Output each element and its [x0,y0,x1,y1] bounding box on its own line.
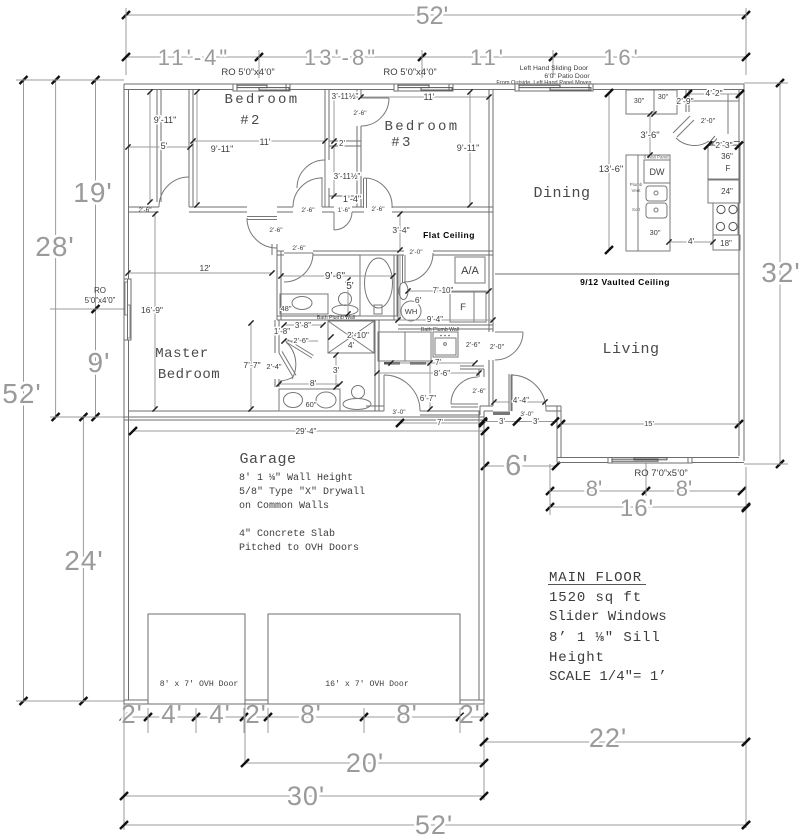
dim: 30 ft [120,781,488,811]
svg-text:11': 11' [470,45,506,70]
door: utility room [403,253,434,283]
svg-text:2’-4": 2’-4" [266,362,282,371]
fixture: kitchen sink [646,186,667,218]
wall: living bottom [557,458,744,463]
svg-text:Pitched to OVH Doors: Pitched to OVH Doors [239,542,359,554]
dim: 2-4 b [266,362,282,371]
svg-text:9’-11": 9’-11" [211,144,234,154]
svg-text:2’-10": 2’-10" [347,330,369,340]
svg-text:8' x 7' OVH Door: 8' x 7' OVH Door [160,679,239,689]
label 60in vanity [305,400,316,409]
dim: bedroom3 9-11 [457,89,480,207]
label 30 island b [658,94,669,101]
svg-text:6’0” Patio Door: 6’0” Patio Door [544,73,590,80]
dim: bedroom3 11ft [358,92,491,102]
svg-text:4’-2": 4’-2" [705,88,722,98]
dim: closet 2ft [339,139,345,148]
label 2-6 bath door [292,245,306,252]
door: entry coat closet [451,377,478,407]
svg-text:1’-4": 1’-4" [343,194,361,204]
svg-text:24': 24' [64,545,104,576]
door: hall bath [284,253,313,282]
door: garage entry [384,375,420,411]
svg-text:2’-6": 2’-6" [269,227,283,234]
label 2-0 pantry [701,118,716,125]
counter line upper cabinets [691,100,739,102]
svg-text:32': 32' [761,257,801,288]
label: MAIN FLOOR block [548,570,667,685]
svg-text:11'-4": 11'-4" [158,45,230,70]
label 2-6 master door [269,227,283,234]
svg-text:30": 30" [658,94,669,101]
label 2-6 bedroom3 door [371,206,385,213]
extension line utility dims [399,255,401,320]
svg-text:9’-6": 9’-6" [325,271,346,282]
label 2-6 closet1 door [353,110,367,117]
dim: utility 9-4 [395,315,495,324]
svg-text:11': 11' [423,92,434,102]
dim: closet1 3-11 [331,92,358,144]
svg-text:Living: Living [602,341,659,358]
wall: kitchen top-left jog [686,90,689,113]
svg-text:4': 4' [688,236,695,246]
wall: bedroom3 right / dining left [489,90,493,256]
counter edge right wall [727,94,729,134]
svg-text:9/12 Vaulted Ceiling: 9/12 Vaulted Ceiling [580,277,670,287]
fixture: hallbath vanity [280,294,328,314]
wall: right exterior [739,84,744,461]
svg-text:4" Concrete Slab: 4" Concrete Slab [239,528,335,540]
fixture: master vanity [279,389,340,411]
door: bedroom3 closet [361,98,389,126]
dim: closet 5ft [125,141,192,151]
label: Dining [533,185,590,202]
svg-text:Slider Windows: Slider Windows [549,609,667,625]
svg-text:Height: Height [549,650,605,666]
svg-text:8': 8' [586,476,602,501]
dim: closet 1-8 [274,327,290,336]
connector y309 left [50,308,124,310]
svg-text:8': 8' [676,476,692,501]
dim: overall depth 52 ft left [2,76,42,705]
label patio door notes [496,65,591,86]
svg-text:2’-6": 2’-6" [353,110,367,117]
svg-text:5/8" Type "X" Drywall: 5/8" Type "X" Drywall [239,486,365,498]
door: master bedroom [247,217,277,249]
door: bedroom2 [293,177,325,207]
dim: 19 ft / 9 ft left [73,76,113,421]
wall: closet column right / bedroom3 left [357,90,361,208]
garage door 8ft [148,614,245,704]
svg-text:Bath Plumb Wall: Bath Plumb Wall [421,327,459,333]
cabinet: 24in [708,180,740,203]
extension line bottom right of living [744,463,788,465]
dim: 28 ft left [35,76,75,421]
fixture: water heater WH [401,301,421,321]
label 1-6 linen door [338,208,350,214]
wall: master right [272,244,277,255]
window: bedroom2 [233,84,290,91]
svg-text:F: F [460,302,466,313]
wall: bedrooms bottom / hall top [128,207,493,212]
fixture: AA unit [455,257,485,283]
extension line x245 bottom [244,704,246,765]
label bath plumb wall 2 [421,327,459,333]
dim: bath 9-6 [278,271,395,282]
label: Garage [239,451,296,468]
svg-text:Soft: Soft [632,207,641,212]
window: bedroom3 [394,84,453,91]
svg-text:2’-6": 2’-6" [466,342,481,349]
dim: 8 ft + 8 ft window [546,476,746,501]
dim: bath 5ft [345,277,353,316]
dim: garage 29-4 [129,427,489,436]
label 30 sink [649,228,660,237]
svg-text:#3: #3 [391,135,412,151]
svg-text:6': 6' [415,295,422,305]
wall: masterbath right [375,320,379,411]
svg-text:Bedroom: Bedroom [225,92,300,108]
fixture: master toilet [343,386,371,410]
wall: entry closet side [509,374,512,411]
svg-text:12': 12' [199,263,210,273]
svg-text:16': 16' [603,45,641,70]
label 2-6 bedroom2 door [301,207,315,214]
label 48in vanity [280,304,291,313]
dim: 32 ft right [761,79,801,468]
cabinet: DW counter strip [626,155,670,251]
extension line top-left corner [125,8,127,75]
wall: bedroom2 left [189,90,193,208]
svg-text:52': 52' [2,378,42,409]
svg-text:F: F [726,164,731,173]
svg-text:3': 3' [499,417,505,426]
svg-text:1’-6": 1’-6" [338,208,350,214]
svg-text:8’ 1 ⅛" Sill: 8’ 1 ⅛" Sill [549,630,661,646]
dim: kitchen 13-6 [599,89,624,254]
wall: master closet left shelf [157,90,161,203]
dim: 3ft 3ft entry [479,417,559,426]
garage door 16ft [268,614,460,704]
label 2-0 utility door [409,249,423,256]
svg-text:3’-11½": 3’-11½" [332,92,359,101]
svg-text:60": 60" [305,400,316,409]
label: vaulted ceiling [580,277,670,287]
dim: 7ft entry [396,418,487,427]
extension line patio center [552,50,554,78]
svg-text:2’-6": 2’-6" [293,336,309,345]
svg-text:4': 4' [348,340,355,350]
dim: linen 1-4 [343,194,361,204]
dim: hall opening 3-4 [392,211,409,252]
tiny plumb vent note [630,155,669,213]
svg-text:3’-11½": 3’-11½" [334,172,361,181]
wall: hall-entry bottom [366,406,561,415]
svg-text:on Common Walls: on Common Walls [239,500,329,512]
svg-text:RO 5’0”x4’0”: RO 5’0”x4’0” [383,67,436,78]
door: bedroom3 [364,178,393,208]
svg-text:2’-6": 2’-6" [292,245,306,252]
label bath plumb wall 1 [317,315,355,321]
ceiling break vaulted [495,273,739,275]
label: Bedroom #2 [225,92,300,129]
wall: master closet left lower [275,379,279,387]
label 3-0 front door [520,411,534,418]
label: Bedroom #3 [385,119,460,151]
extension line x550 [549,464,551,515]
wall: top exterior [124,84,744,90]
fixture: shower [328,321,374,353]
wall: bath left [277,251,281,320]
dim: bedroom2 9-11 [194,89,233,207]
svg-text:6’-7": 6’-7" [420,394,436,403]
label 2-0 nook [490,344,505,351]
svg-text:3’-8": 3’-8" [295,321,311,330]
label RO 5x4 window1 [221,67,274,78]
dim: shower 2-10 [347,330,369,340]
svg-text:3’-6": 3’-6" [640,130,659,141]
dim: master 16-9 [141,211,163,411]
wall: linen top [329,195,361,197]
svg-text:9’-11": 9’-11" [154,115,177,125]
dim: overall width 52 ft top [122,2,750,30]
dim: laundry 8-6 [374,369,481,378]
fixture: utility sink [399,283,408,300]
extension line window2 center [421,50,423,78]
svg-text:52': 52' [415,810,453,840]
svg-text:28': 28' [35,231,75,262]
wall: bath-utility divider [394,255,398,320]
svg-text:6': 6' [505,450,529,482]
extension line window1 center [258,50,260,78]
svg-text:Left Hand Sliding Door: Left Hand Sliding Door [520,65,589,72]
dim: 4ft kitchen [666,236,715,246]
svg-text:16' x 7' OVH Door: 16' x 7' OVH Door [325,679,409,689]
wall: porch left [557,406,561,463]
svg-text:Flat Ceiling: Flat Ceiling [423,230,475,240]
connector y417 left [50,416,124,418]
svg-text:1’-8": 1’-8" [274,327,290,336]
svg-text:8' 1 ⅛" Wall Height: 8' 1 ⅛" Wall Height [239,472,353,484]
svg-text:7': 7' [435,358,441,367]
wall: utility right lower [489,360,493,406]
wall: bedroom2 right [325,90,329,208]
door: linen closet [334,212,352,230]
door: bedroom2 closet [297,160,325,188]
extension line x746 right tall [742,467,750,829]
svg-text:3': 3' [533,417,539,426]
svg-text:19': 19' [73,177,113,208]
label 30 island a [634,98,645,105]
svg-text:2’-0": 2’-0" [701,118,716,125]
svg-text:Dining: Dining [533,185,590,202]
door: nook to hall [495,332,523,360]
svg-text:16': 16' [620,495,654,522]
svg-text:3': 3' [333,365,340,375]
wall: entry closet back [460,366,484,369]
svg-text:9’-11": 9’-11" [457,143,480,153]
dim: 15 ft living [557,419,743,428]
wall: fridge top [710,141,740,143]
label 3-0 garage door [392,409,406,416]
connector y701 left [16,700,124,702]
fixture: washer dryer [378,332,431,365]
svg-text:18": 18" [720,239,732,248]
svg-text:Vent: Vent [631,188,641,193]
svg-text:30": 30" [634,98,645,105]
extension line x646 window center [645,463,647,496]
wall: left exterior [124,84,129,704]
svg-text:22': 22' [589,723,627,753]
chain stub extensions [148,708,460,733]
dim: closet 3-8 [281,321,325,330]
label 2-6 nook [466,342,481,349]
door: master closet [159,177,189,207]
dim: 4-2 [684,88,744,98]
dim: 7-7 [243,320,260,411]
svg-text:2’-6": 2’-6" [371,206,385,213]
svg-text:15': 15' [644,419,654,428]
dim: masterbath 8ft [276,378,342,388]
svg-text:20': 20' [346,748,384,778]
extension line top-right corner [745,8,747,75]
svg-text:DW: DW [650,167,665,177]
fixture: furnace F [450,292,486,322]
dim: closet 4-4 [491,396,547,405]
svg-text:48": 48" [280,304,291,313]
dim: 6 ft porch [481,450,560,482]
fixture: laundry sink counter [433,332,458,357]
extension line y80 left [16,79,124,81]
svg-text:RO 7’0”x5’0”: RO 7’0”x5’0” [634,468,687,479]
label 2-6 coat closet [472,388,486,395]
svg-text:52': 52' [416,2,449,30]
door: master corner closet B [279,351,296,381]
svg-text:13’-6": 13’-6" [599,164,624,175]
svg-text:1520 sq ft: 1520 sq ft [549,590,642,606]
porch slab edge [484,465,557,467]
svg-text:Master: Master [155,346,208,362]
wall: entry closet jamb [479,369,484,377]
dim: utility 7-10 [405,286,491,295]
wall: closet divider [329,141,361,146]
wall: garage top firewall [124,417,484,420]
dim: 52 ft bottom [120,810,750,840]
dim: master 12ft [125,263,274,276]
svg-text:8': 8' [310,378,317,388]
svg-text:7’-7": 7’-7" [243,360,260,370]
svg-text:Bath Plumb Wall: Bath Plumb Wall [317,315,355,321]
dim: shower 4ft [348,340,355,350]
wall: garage bottom [124,700,484,704]
svg-text:3’-0": 3’-0" [392,409,406,416]
svg-text:WH: WH [405,307,418,316]
door: front entry [511,375,546,411]
wall: master bottom line [128,410,366,412]
svg-text:3’-4": 3’-4" [392,225,409,235]
svg-text:SCALE 1/4"= 1’: SCALE 1/4"= 1’ [549,669,667,685]
dim: 2-3 fridge [704,140,743,150]
svg-text:8’-6": 8’-6" [434,369,450,378]
svg-text:16’-9": 16’-9" [141,305,163,315]
dim: bedroom2 11ft [190,137,327,147]
extension line x484 bottom [483,469,485,800]
svg-text:Garage: Garage [239,451,296,468]
svg-text:Plumb: Plumb [630,182,643,187]
svg-text:5': 5' [346,281,354,292]
svg-text:2': 2' [339,139,345,148]
svg-text:Bedroom: Bedroom [385,119,460,135]
svg-text:2’-6": 2’-6" [472,388,486,395]
wall: pantry jamb right [709,136,717,146]
cabinet: island 30-30 [626,90,677,117]
label: Living [602,341,659,358]
door: master corner closet A [286,340,314,380]
svg-text:RO 5’0”x4’0”: RO 5’0”x4’0” [221,67,274,78]
dim: 3ft masterbath [333,352,340,389]
svg-text:MAIN FLOOR: MAIN FLOOR [549,570,642,586]
svg-text:36": 36" [721,152,733,161]
appliance: range [713,203,738,235]
svg-text:13'-8": 13'-8" [304,45,378,70]
door: pantry [676,138,709,146]
appliance: fridge [708,145,740,179]
svg-text:5': 5' [161,141,168,151]
wall: dining-hall lower [489,255,493,332]
svg-text:9': 9' [88,347,111,378]
label: Flat Ceiling [423,230,475,240]
appliance: dishwasher [644,160,670,183]
svg-text:2’-6": 2’-6" [138,207,152,214]
wall: bath top [277,251,493,255]
wall: bath bottom plumb wall [277,316,397,320]
window: living (bottom wall) [608,458,692,464]
dim: 22 ft [480,723,750,753]
label RO 5x4 window2 [383,67,436,78]
dim: 2-9 [676,96,693,106]
svg-text:2’-6": 2’-6" [301,207,315,214]
label 2-6 diag closet [281,336,318,345]
svg-text:11': 11' [259,137,270,147]
fixture: hallbath toilet [332,293,358,316]
label RO 5x4 master window [85,286,116,305]
svg-text:2’-0": 2’-0" [490,344,505,351]
dim: utility 6ft [415,295,422,305]
svg-text:4’-4": 4’-4" [513,396,529,405]
svg-text:A/A: A/A [461,265,479,277]
svg-text:#2: #2 [240,113,261,129]
dim: 24 ft left [64,413,104,705]
dim: 16 ft bottom [546,495,750,522]
svg-text:9’-4": 9’-4" [427,315,443,324]
wall: master closet left [275,320,279,353]
svg-text:29’-4": 29’-4" [296,427,317,436]
dim chain garage doors [120,699,488,729]
dim: 20 ft [241,748,488,778]
window: master (left wall) [124,279,131,340]
dim: entry 6-7 [420,360,436,411]
extension line x124 bottom [123,704,125,830]
dim: kitchen 3-6 [640,111,659,157]
label: garage notes [239,472,365,554]
label 2-6 master closet door [138,207,152,214]
door: pantry leaf [673,116,694,137]
svg-text:30": 30" [649,228,660,237]
svg-text:7’-10": 7’-10" [433,286,454,295]
extension line top right [744,82,788,84]
label RO 7x5 living window [634,468,687,479]
dim: closet2 3-11 [331,143,360,198]
